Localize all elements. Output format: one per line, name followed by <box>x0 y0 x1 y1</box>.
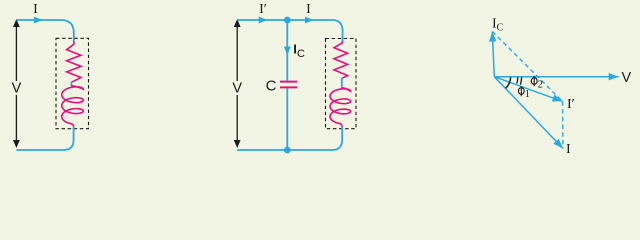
svg-text:I′: I′ <box>259 2 267 17</box>
svg-text:I′: I′ <box>567 97 575 112</box>
svg-text:I: I <box>306 2 311 17</box>
svg-text:C: C <box>297 48 305 60</box>
svg-text:1: 1 <box>525 89 530 100</box>
svg-text:V: V <box>12 81 22 97</box>
svg-text:V: V <box>232 81 242 97</box>
svg-text:I: I <box>33 2 38 17</box>
svg-text:2: 2 <box>538 80 543 91</box>
svg-text:V: V <box>622 70 632 86</box>
svg-text:C: C <box>266 78 277 95</box>
svg-text:I: I <box>566 142 571 157</box>
